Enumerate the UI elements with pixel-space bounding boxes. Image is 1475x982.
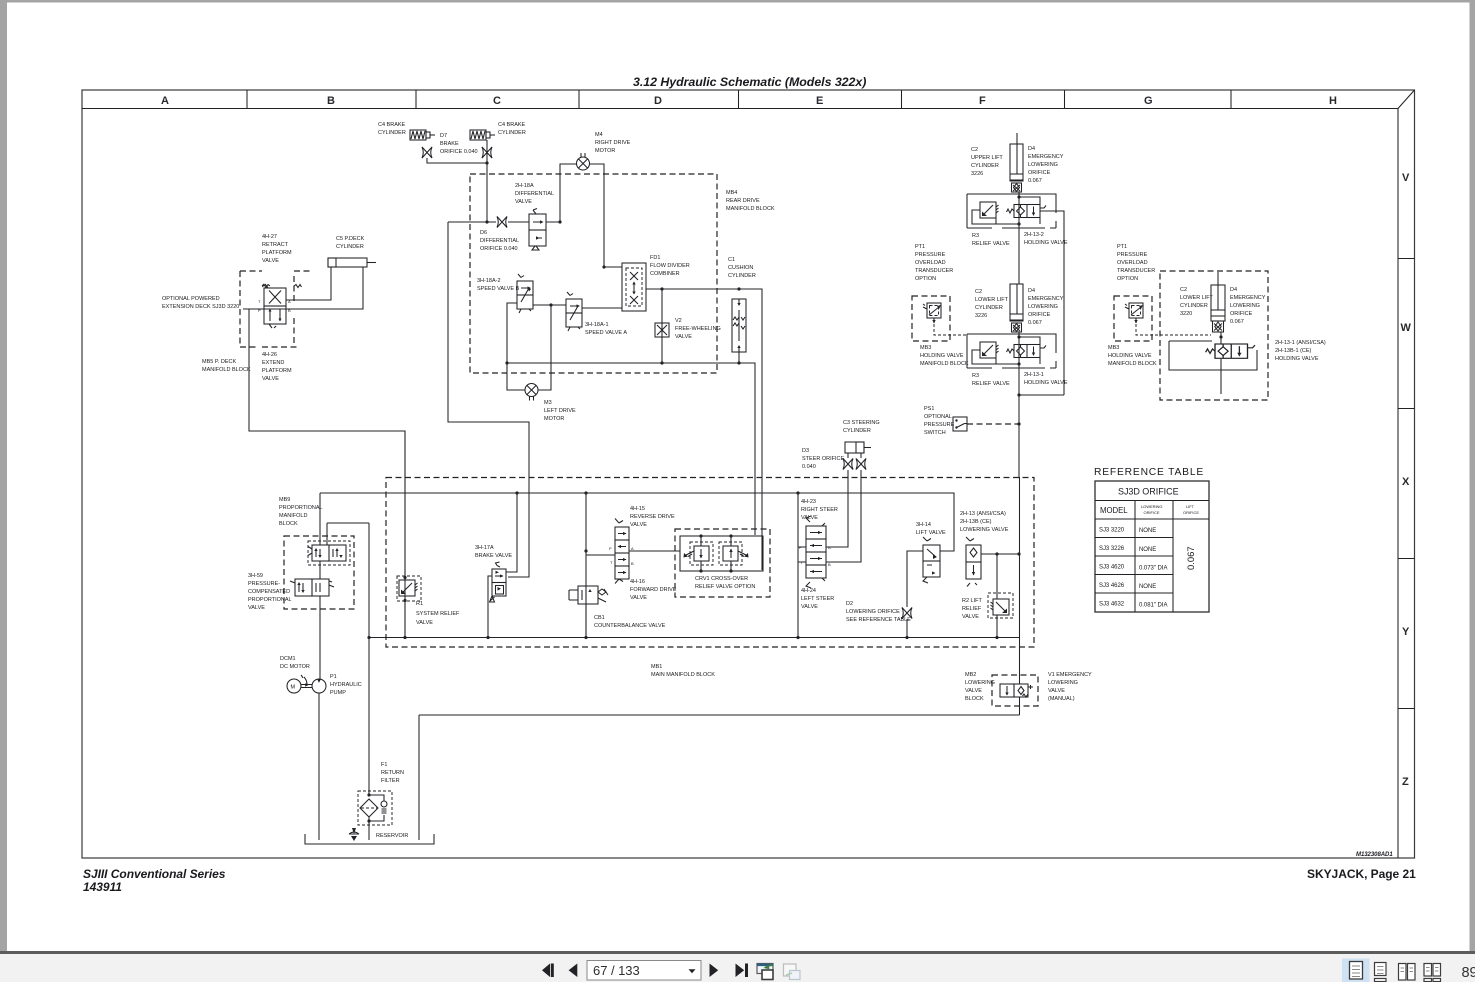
label pressure switch PS1 xyxy=(924,406,955,436)
svg-text:CYLINDER: CYLINDER xyxy=(336,244,364,250)
svg-text:PLATFORM: PLATFORM xyxy=(262,250,292,256)
svg-text:MANIFOLD: MANIFOLD xyxy=(279,513,307,519)
svg-text:D4: D4 xyxy=(1028,146,1035,152)
svg-text:EMERGENCY: EMERGENCY xyxy=(1230,295,1266,301)
svg-text:MANIFOLD BLOCK: MANIFOLD BLOCK xyxy=(920,361,969,367)
svg-text:SYSTEM RELIEF: SYSTEM RELIEF xyxy=(416,611,460,617)
svg-text:EXTEND: EXTEND xyxy=(262,360,284,366)
svg-text:V: V xyxy=(1402,172,1410,184)
lowering valve block MB2 (dashed) xyxy=(992,675,1038,706)
svg-text:3226: 3226 xyxy=(975,313,987,319)
svg-text:D6: D6 xyxy=(480,230,487,236)
svg-text:LOWERING: LOWERING xyxy=(1048,680,1078,686)
relief valve R1 (dashed box) xyxy=(397,576,421,601)
svg-text:PS1: PS1 xyxy=(924,406,934,412)
svg-text:E: E xyxy=(816,95,823,107)
svg-text:T: T xyxy=(258,299,261,304)
wire PS1 dashed to centerline xyxy=(967,423,1019,425)
svg-text:4H-15: 4H-15 xyxy=(630,506,645,512)
svg-text:A: A xyxy=(828,545,831,550)
label motor M3 xyxy=(544,400,576,422)
svg-text:OPTION: OPTION xyxy=(915,276,936,282)
svg-text:HOLDING VALVE: HOLDING VALVE xyxy=(1275,356,1319,362)
svg-text:RELIEF VALVE: RELIEF VALVE xyxy=(972,241,1010,247)
svg-text:DIFFERENTIAL: DIFFERENTIAL xyxy=(515,191,554,197)
transducer PT1 (left) dashed box xyxy=(912,296,950,341)
svg-text:LOWER LIFT: LOWER LIFT xyxy=(1180,295,1214,301)
svg-text:LEFT DRIVE: LEFT DRIVE xyxy=(544,408,576,414)
svg-text:MANIFOLD BLOCK: MANIFOLD BLOCK xyxy=(202,367,251,373)
svg-text:2H-13 (ANSI/CSA): 2H-13 (ANSI/CSA) xyxy=(960,511,1006,517)
svg-text:HOLDING VALVE: HOLDING VALVE xyxy=(1108,353,1152,359)
svg-text:3H-18A-1: 3H-18A-1 xyxy=(585,322,609,328)
svg-text:TRANSDUCER: TRANSDUCER xyxy=(915,268,953,274)
wire supply rail xyxy=(320,493,954,551)
svg-text:CYLINDER: CYLINDER xyxy=(971,163,999,169)
label return filter F1 xyxy=(381,762,404,784)
label relief valve R2 xyxy=(962,598,983,620)
svg-text:C2: C2 xyxy=(971,147,978,153)
svg-text:FILTER: FILTER xyxy=(381,778,400,784)
steering cylinder C3 xyxy=(845,442,871,453)
svg-text:MB9: MB9 xyxy=(279,497,290,503)
svg-text:SJ3 4626: SJ3 4626 xyxy=(1099,583,1125,589)
svg-text:PLATFORM: PLATFORM xyxy=(262,368,292,374)
label manifold block MB1 xyxy=(651,664,715,678)
svg-text:SJIII Conventional Series: SJIII Conventional Series xyxy=(83,867,226,881)
label CRV1 xyxy=(695,576,755,590)
svg-text:M4: M4 xyxy=(595,132,603,138)
label PT1 option (left) xyxy=(915,244,953,282)
svg-text:MB3: MB3 xyxy=(920,345,931,351)
svg-text:4H-24: 4H-24 xyxy=(801,588,816,594)
svg-text:LIFT VALVE: LIFT VALVE xyxy=(916,530,946,536)
svg-text:OVERLOAD: OVERLOAD xyxy=(915,260,946,266)
svg-text:CYLINDER: CYLINDER xyxy=(498,130,526,136)
svg-text:ORIFICE: ORIFICE xyxy=(1028,312,1051,318)
svg-text:MAIN MANIFOLD BLOCK: MAIN MANIFOLD BLOCK xyxy=(651,672,715,678)
svg-text:DIFFERENTIAL: DIFFERENTIAL xyxy=(480,238,519,244)
svg-text:FD1: FD1 xyxy=(650,255,660,261)
svg-text:SJ3 3226: SJ3 3226 xyxy=(1099,546,1125,552)
svg-text:VALVE: VALVE xyxy=(416,620,433,626)
svg-text:D4: D4 xyxy=(1028,288,1035,294)
valve 2H-18A differential xyxy=(529,209,546,251)
wire filter to reservoir xyxy=(368,817,370,840)
svg-text:PRESSURE: PRESSURE xyxy=(1117,252,1148,258)
wire upper cylinder centerline xyxy=(1018,192,1020,284)
wire drive valve feed drop xyxy=(585,493,587,638)
svg-text:C4 BRAKE: C4 BRAKE xyxy=(498,122,526,128)
svg-text:PT1: PT1 xyxy=(1117,244,1127,250)
svg-text:Z: Z xyxy=(1402,776,1409,788)
svg-text:RIGHT DRIVE: RIGHT DRIVE xyxy=(595,140,631,146)
relief valve R2 xyxy=(991,599,1010,615)
holding valve 2H-13-1 (CE) xyxy=(1206,344,1255,358)
label holding valve 2H-13-1 xyxy=(1024,372,1068,386)
transducer PT1 (right) xyxy=(1125,303,1143,324)
motor M3 xyxy=(525,384,538,401)
svg-text:CYLINDER: CYLINDER xyxy=(1180,303,1208,309)
svg-text:CYLINDER: CYLINDER xyxy=(378,130,406,136)
svg-text:C5 P.DECK: C5 P.DECK xyxy=(336,236,365,242)
wire motor M4 to flow divider xyxy=(590,164,623,267)
transducer PT1 (left) xyxy=(923,303,941,324)
label lower lift cylinder C2 xyxy=(975,289,1009,319)
svg-text:SJ3 4632: SJ3 4632 xyxy=(1099,602,1125,608)
svg-text:EXTENSION DECK SJ3D 3220: EXTENSION DECK SJ3D 3220 xyxy=(162,304,239,310)
orifice D7 xyxy=(422,147,432,158)
svg-text:D7: D7 xyxy=(440,133,447,139)
manifold block CE (large dashed box) xyxy=(1160,271,1268,400)
svg-text:R1: R1 xyxy=(416,601,423,607)
next page button xyxy=(710,964,719,978)
svg-text:SEE REFERENCE TABLE: SEE REFERENCE TABLE xyxy=(846,617,911,623)
svg-text:(MANUAL): (MANUAL) xyxy=(1048,696,1075,702)
wire R3 to centerline upper xyxy=(972,210,1019,224)
svg-text:RELIEF: RELIEF xyxy=(962,606,982,612)
label orifice D2 xyxy=(846,601,911,623)
svg-text:ORIFICE: ORIFICE xyxy=(1028,170,1051,176)
svg-text:LOWER LIFT: LOWER LIFT xyxy=(975,297,1009,303)
svg-text:2H-13B-1 (CE): 2H-13B-1 (CE) xyxy=(1275,348,1312,354)
svg-text:FREE-WHEELING: FREE-WHEELING xyxy=(675,326,721,332)
svg-text:Y: Y xyxy=(1402,626,1410,638)
page number box xyxy=(587,961,701,981)
label holding valve (CE) xyxy=(1275,340,1326,362)
pressure switch PS1 xyxy=(953,417,967,431)
upper lift cylinder C2 with orifice D4 xyxy=(1010,133,1023,192)
svg-text:FLOW DIVIDER: FLOW DIVIDER xyxy=(650,263,690,269)
wire speed valve B left drop xyxy=(507,303,525,390)
valve 3H-18A-2 speed B xyxy=(517,274,533,313)
wire speed valve A to flow divider xyxy=(582,307,622,309)
svg-text:G: G xyxy=(1144,95,1153,107)
wire manifold return rail xyxy=(369,637,1020,639)
svg-text:COMPENSATED: COMPENSATED xyxy=(248,589,290,595)
svg-text:SPEED VALVE A: SPEED VALVE A xyxy=(585,330,627,336)
wire pump suction to reservoir xyxy=(318,693,320,840)
label relief valve R1 xyxy=(416,601,460,626)
two page view icon xyxy=(1399,964,1407,981)
label holding valve 2H-13-2 xyxy=(1024,232,1068,246)
label valve 4H-16 xyxy=(630,579,677,601)
svg-text:PRESSURE-: PRESSURE- xyxy=(248,581,280,587)
wire steer valve P drop xyxy=(798,493,806,637)
svg-text:2H-13B (CE): 2H-13B (CE) xyxy=(960,519,992,525)
svg-text:SKYJACK, Page 21: SKYJACK, Page 21 xyxy=(1307,867,1416,881)
manifold block MB9 (dashed) xyxy=(284,536,354,609)
label valve 4H-15 xyxy=(630,506,675,528)
svg-text:REAR DRIVE: REAR DRIVE xyxy=(726,198,760,204)
relief valve R3 lower xyxy=(980,342,999,358)
svg-text:4H-26: 4H-26 xyxy=(262,352,277,358)
first page button xyxy=(542,964,550,978)
valve 3H-14 lift xyxy=(923,537,940,583)
svg-text:SJ3 4620: SJ3 4620 xyxy=(1099,565,1125,571)
next view icon (disabled) xyxy=(784,964,797,976)
wire brake valve ports xyxy=(488,493,517,638)
valve 4H-15 / 4H-16 drive spool xyxy=(609,519,634,584)
cross-over relief CRV1 (dashed box) xyxy=(675,529,770,597)
orifice on right brake line xyxy=(482,147,492,158)
svg-text:C2: C2 xyxy=(1180,287,1187,293)
svg-text:REVERSE DRIVE: REVERSE DRIVE xyxy=(630,514,675,520)
wire supply to differential valve xyxy=(448,221,560,223)
label brake cylinder C4 (left) xyxy=(378,122,406,136)
wire drive valve to CRV1 xyxy=(629,550,680,552)
svg-text:LOWERING VALVE: LOWERING VALVE xyxy=(960,527,1009,533)
svg-text:BRAKE VALVE: BRAKE VALVE xyxy=(475,553,512,559)
wire MB9 internal loop xyxy=(320,523,369,795)
transducer PT1 (right) dashed box xyxy=(1114,296,1152,341)
svg-text:MB2: MB2 xyxy=(965,672,976,678)
svg-text:CB1: CB1 xyxy=(594,615,605,621)
label lowering valve block MB2 xyxy=(965,672,995,702)
svg-text:EMERGENCY: EMERGENCY xyxy=(1028,296,1064,302)
wire R3 to centerline lower xyxy=(972,350,1019,364)
svg-text:RIGHT STEER: RIGHT STEER xyxy=(801,507,838,513)
svg-text:RELIEF VALVE OPTION: RELIEF VALVE OPTION xyxy=(695,584,755,590)
cross-over relief CRV1 xyxy=(680,534,763,572)
svg-text:4H-27: 4H-27 xyxy=(262,234,277,240)
label orifice D4 (CE) xyxy=(1230,287,1266,325)
svg-text:MANIFOLD BLOCK: MANIFOLD BLOCK xyxy=(726,206,775,212)
valve 2H-13 lowering xyxy=(966,537,981,587)
wire MB9 inlet drop xyxy=(319,493,321,545)
holding valve 2H-13-1 xyxy=(1007,345,1047,358)
holding valve block 2H-13-2 box xyxy=(967,194,1056,228)
svg-text:3H-59: 3H-59 xyxy=(248,573,263,579)
svg-text:0.081" DIA: 0.081" DIA xyxy=(1139,603,1167,609)
svg-text:MB1: MB1 xyxy=(651,664,662,670)
manifold block MB1 (dashed boundary) xyxy=(386,478,1034,648)
svg-text:LOWERING: LOWERING xyxy=(1141,504,1162,509)
svg-text:X: X xyxy=(1402,476,1410,488)
breather xyxy=(349,828,359,841)
holding valve block 2H-13-1 box xyxy=(967,334,1056,368)
wire valve A-port to cylinder C5 xyxy=(286,267,331,300)
relief valve R3 upper xyxy=(980,202,999,218)
reservoir xyxy=(305,834,434,844)
svg-text:89: 89 xyxy=(1462,965,1475,981)
svg-text:0.073" DIA: 0.073" DIA xyxy=(1139,566,1167,572)
svg-text:C4 BRAKE: C4 BRAKE xyxy=(378,122,406,128)
svg-text:LOWERING: LOWERING xyxy=(1028,162,1058,168)
svg-text:REFERENCE TABLE: REFERENCE TABLE xyxy=(1094,467,1204,478)
svg-text:ORIFICE 0.040: ORIFICE 0.040 xyxy=(480,246,518,252)
svg-text:C3 STEERING: C3 STEERING xyxy=(843,420,880,426)
svg-text:PRESSURE: PRESSURE xyxy=(924,422,955,428)
label flow divider FD1 xyxy=(650,255,690,277)
svg-text:C1: C1 xyxy=(728,257,735,263)
wire holding valve right side down xyxy=(1019,197,1064,395)
svg-text:4H-16: 4H-16 xyxy=(630,579,645,585)
svg-text:VALVE: VALVE xyxy=(630,595,647,601)
label orifice D7 xyxy=(440,133,478,155)
label PT1 option (right) xyxy=(1117,244,1155,282)
wire center rail to MB2 xyxy=(1019,477,1021,684)
wire CRV1 bottom to drive return xyxy=(762,570,764,571)
wire brake line down left side xyxy=(448,222,529,577)
toolbar controls xyxy=(542,959,1475,982)
svg-text:VALVE: VALVE xyxy=(248,605,265,611)
svg-text:2H-18A: 2H-18A xyxy=(515,183,534,189)
svg-text:CYLINDER: CYLINDER xyxy=(843,428,871,434)
svg-text:RESERVOIR: RESERVOIR xyxy=(376,833,408,839)
svg-text:VALVE: VALVE xyxy=(801,604,818,610)
previous view icon xyxy=(757,964,773,974)
svg-text:MOTOR: MOTOR xyxy=(595,148,615,154)
svg-text:F: F xyxy=(979,95,986,107)
viewer background edges xyxy=(0,0,1475,3)
svg-text:VALVE: VALVE xyxy=(630,522,647,528)
label valve 3H-18A-1 xyxy=(585,322,627,336)
svg-text:ORIFICE: ORIFICE xyxy=(1230,311,1253,317)
cylinder C5 xyxy=(328,258,376,267)
wire V1 to return xyxy=(1019,697,1021,715)
schematic border frame xyxy=(82,90,1415,858)
svg-text:A: A xyxy=(631,546,634,551)
wire differential valve to motor M4 xyxy=(560,164,577,222)
label cylinder C5 xyxy=(336,236,365,250)
svg-text:TRANSDUCER: TRANSDUCER xyxy=(1117,268,1155,274)
svg-text:B: B xyxy=(631,561,634,566)
brake cylinder C4 (right) xyxy=(470,130,495,140)
svg-text:MB4: MB4 xyxy=(726,190,737,196)
svg-text:VALVE: VALVE xyxy=(262,258,279,264)
label lift cylinder C2 (CE) xyxy=(1180,287,1214,317)
svg-text:HOLDING VALVE: HOLDING VALVE xyxy=(920,353,964,359)
label pump P1 xyxy=(330,674,362,696)
toolbar xyxy=(0,951,1475,954)
free wheeling valve V2 xyxy=(655,323,669,337)
svg-text:DC MOTOR: DC MOTOR xyxy=(280,664,310,670)
svg-text:3H-17A: 3H-17A xyxy=(475,545,494,551)
label valve 2H-13 lowering xyxy=(960,511,1009,533)
label upper lift cylinder C2 xyxy=(971,147,1003,177)
svg-text:BLOCK: BLOCK xyxy=(279,521,298,527)
svg-text:BRAKE: BRAKE xyxy=(440,141,459,147)
svg-text:D3: D3 xyxy=(802,448,809,454)
svg-text:2H-13-1 (ANSI/CSA): 2H-13-1 (ANSI/CSA) xyxy=(1275,340,1326,346)
svg-text:VALVE: VALVE xyxy=(965,688,982,694)
svg-text:UPPER LIFT: UPPER LIFT xyxy=(971,155,1003,161)
manifold block MB5 (dashed) xyxy=(240,271,312,347)
svg-text:P1: P1 xyxy=(330,674,337,680)
valve 4H-23 / 4H-24 steer spool xyxy=(799,516,831,588)
two page continuous icon xyxy=(1424,964,1432,977)
prev page button xyxy=(569,964,578,978)
svg-text:4H-23: 4H-23 xyxy=(801,499,816,505)
svg-text:T: T xyxy=(610,560,613,565)
label optional powered extension deck xyxy=(162,296,239,310)
wire steering cylinder to steer valve xyxy=(826,453,861,562)
svg-text:MODEL: MODEL xyxy=(1100,506,1128,515)
wire lift valve tank side with D2 xyxy=(907,551,923,637)
svg-text:LIFT: LIFT xyxy=(1186,504,1195,509)
label valve 4H-27 xyxy=(262,234,292,264)
svg-text:3H-18A-2: 3H-18A-2 xyxy=(477,278,501,284)
svg-text:V2: V2 xyxy=(675,318,682,324)
svg-text:FORWARD DRIVE: FORWARD DRIVE xyxy=(630,587,677,593)
svg-text:P: P xyxy=(609,546,612,551)
svg-text:MB5 P. DECK: MB5 P. DECK xyxy=(202,359,236,365)
svg-text:STEER ORIFICE: STEER ORIFICE xyxy=(802,456,845,462)
svg-text:3226: 3226 xyxy=(971,171,983,177)
label valve 3H-59 xyxy=(248,573,292,611)
svg-text:SJ3 3220: SJ3 3220 xyxy=(1099,528,1125,534)
svg-text:3.12 Hydraulic Schematic (Mod: 3.12 Hydraulic Schematic (Models 322x) xyxy=(633,75,866,89)
manifold block MB4 (dashed) xyxy=(470,174,717,373)
orifice D6 xyxy=(497,217,507,228)
svg-text:R2 LIFT: R2 LIFT xyxy=(962,598,983,604)
svg-text:PT1: PT1 xyxy=(915,244,925,250)
label manifold block MB3 (right) xyxy=(1108,345,1157,367)
svg-text:MB3: MB3 xyxy=(1108,345,1119,351)
svg-text:RELIEF VALVE: RELIEF VALVE xyxy=(972,381,1010,387)
valve 3H-17A brake xyxy=(490,562,507,602)
svg-text:M3: M3 xyxy=(544,400,552,406)
svg-text:OPTIONAL: OPTIONAL xyxy=(924,414,952,420)
svg-text:PROPORTIONAL: PROPORTIONAL xyxy=(248,597,292,603)
label manifold block MB5 xyxy=(202,359,251,373)
label DC motor DCM1 xyxy=(280,656,310,670)
valve V1 emergency lowering xyxy=(1000,684,1033,697)
svg-text:HOLDING VALVE: HOLDING VALVE xyxy=(1024,380,1068,386)
label orifice D3 xyxy=(802,448,845,470)
continuous view icon xyxy=(1375,963,1387,976)
svg-text:NONE: NONE xyxy=(1139,528,1156,534)
label orifice D4 lower xyxy=(1028,288,1064,326)
svg-text:LEFT STEER: LEFT STEER xyxy=(801,596,834,602)
label motor M4 xyxy=(595,132,631,154)
svg-text:143911: 143911 xyxy=(83,880,122,894)
svg-text:LOWERING: LOWERING xyxy=(1230,303,1260,309)
svg-text:MOTOR: MOTOR xyxy=(544,416,564,422)
single page view (active) xyxy=(1342,959,1370,982)
cushion cylinder C1 xyxy=(732,299,746,352)
label valve 4H-24 xyxy=(801,588,834,610)
svg-text:LOWERING ORIFICE: LOWERING ORIFICE xyxy=(846,609,900,615)
svg-text:R3: R3 xyxy=(972,233,979,239)
wire R1 drop xyxy=(404,431,406,637)
svg-text:LOWERING: LOWERING xyxy=(1028,304,1058,310)
svg-text:ORIFICE 0.040: ORIFICE 0.040 xyxy=(440,149,478,155)
svg-text:D4: D4 xyxy=(1230,287,1237,293)
svg-text:R3: R3 xyxy=(972,373,979,379)
lower lift cylinder C2 with orifice D4 xyxy=(1010,284,1023,332)
return filter F1 xyxy=(358,791,392,825)
wire free wheeling drop xyxy=(661,289,663,363)
relief valve R1 xyxy=(399,580,418,596)
counterbalance valve CB1 xyxy=(569,586,608,604)
wire PT1 dashed into CE block xyxy=(1136,324,1211,335)
wire flow divider to cushion cylinder line xyxy=(646,289,762,570)
node brake junction xyxy=(485,161,488,164)
wire drive return bottom xyxy=(507,363,755,535)
brake cylinder C4 (left) xyxy=(410,130,435,140)
label valve 3H-17A xyxy=(475,545,512,559)
svg-text:B: B xyxy=(828,562,831,567)
label cushion cylinder C1 xyxy=(728,257,756,279)
svg-text:0.067: 0.067 xyxy=(1230,319,1244,325)
label brake cylinder C4 (right) xyxy=(498,122,526,136)
relief valve R2 (dashed box) xyxy=(988,593,1013,618)
svg-text:CYLINDER: CYLINDER xyxy=(975,305,1003,311)
svg-text:BLOCK: BLOCK xyxy=(965,696,984,702)
svg-text:NONE: NONE xyxy=(1139,584,1156,590)
